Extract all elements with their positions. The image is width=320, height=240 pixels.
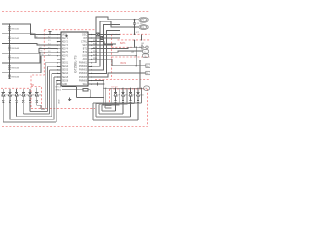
- wire PWM04 to label LB2: [92, 73, 146, 77]
- svg-text:SEG3: SEG3: [62, 70, 69, 72]
- row wire 1: [2, 24, 57, 35]
- LED D3: [15, 89, 22, 117]
- inline component Y2: [100, 37, 103, 40]
- row wire 5: [2, 52, 57, 63]
- svg-text:NTC1: NTC1: [56, 87, 62, 89]
- wire pin ADJ to label LB1: [92, 59, 146, 65]
- IC right pin name texts: [79, 34, 88, 86]
- svg-text:SEG5: SEG5: [62, 77, 69, 79]
- svg-text:GND: GND: [62, 84, 67, 86]
- net flag FL2: [139, 25, 148, 30]
- svg-text:SEG2: SEG2: [62, 66, 69, 68]
- junction dot C1 stub at zone line: [134, 33, 136, 35]
- svg-text:SW1 A1: SW1 A1: [11, 27, 20, 30]
- svg-text:INT: INT: [83, 38, 87, 40]
- svg-text:SNS: SNS: [82, 56, 87, 58]
- net label LB2: [146, 71, 150, 75]
- svg-text:R3: R3: [37, 44, 39, 46]
- left rail vertical wire: [9, 24, 11, 79]
- svg-text:BT1: BT1: [83, 49, 88, 51]
- junction dots on battery wire: [134, 47, 141, 48]
- right nest bottoms: [93, 108, 138, 120]
- svg-text:R2: R2: [35, 36, 37, 38]
- switch SW1: [8, 27, 20, 31]
- row wire 3: [2, 44, 57, 46]
- crystal X1: [92, 83, 104, 86]
- left zone red dashed line y88.3: [1, 87, 30, 89]
- mid zone red dashed line y108.4: [31, 107, 95, 109]
- LED D9: [129, 88, 136, 117]
- IC U1 body: [61, 32, 88, 86]
- net label LB1: [146, 64, 150, 68]
- svg-text:SEL: SEL: [83, 84, 88, 86]
- battery B1 symbol: [142, 43, 149, 50]
- svg-text:R4: R4: [39, 47, 41, 49]
- right LED top wire to flag 3: [103, 88, 143, 89]
- svg-text:BAT2: BAT2: [121, 62, 127, 65]
- GND stub wires: [56, 87, 104, 98]
- LED D1: [2, 89, 9, 122]
- svg-text:KEY1: KEY1: [62, 38, 69, 40]
- switch SW4: [8, 56, 20, 60]
- row wire 2: [2, 34, 57, 38]
- wire pin INT with series comp: [92, 37, 120, 39]
- LED D6 red dashed box: [31, 87, 42, 109]
- left nest bus bottoms: [3, 109, 56, 122]
- LED D7: [114, 88, 121, 111]
- IC left outside pin numbers: [48, 37, 51, 57]
- net flag FL1: [139, 17, 148, 22]
- right nest top runs to risers: [93, 103, 142, 106]
- svg-text:VDD: VDD: [62, 34, 67, 36]
- svg-text:KEY2: KEY2: [62, 41, 69, 43]
- LED D5: [28, 89, 35, 112]
- charge stub vertical: [134, 40, 135, 48]
- LED D4: [22, 89, 29, 114]
- battery1 red dashed box: [112, 34, 150, 79]
- svg-text:KEY4: KEY4: [62, 49, 69, 51]
- net flag FL3: [144, 86, 150, 91]
- junction dots on left rail: [9, 23, 10, 73]
- bottom border red dashed line: [2, 126, 148, 128]
- svg-text:SET: SET: [83, 45, 88, 47]
- switch SW5: [8, 66, 20, 70]
- LED D6 (boxed): [35, 88, 42, 106]
- svg-text:SEG1: SEG1: [62, 63, 69, 65]
- svg-text:BT2: BT2: [83, 52, 88, 54]
- svg-text:KEY6: KEY6: [62, 56, 69, 58]
- connector J1 pin B: [143, 54, 149, 58]
- wire pin BT1 to battery B1: [92, 47, 142, 48]
- wire pin BT2 to connector J1: [92, 51, 143, 52]
- wire pin OSC with series comp to BAT1 plus: [92, 34, 120, 36]
- power zone red dashed line y79.5: [95, 79, 149, 81]
- wire pin SNS to sense resistor: [92, 55, 136, 57]
- row step tiny labels: [31, 33, 44, 56]
- IC left pin stubs: [57, 35, 61, 85]
- capacitor C1 lower stub: [135, 27, 140, 34]
- wire from pin PWM02 up to net flag 2: [92, 21, 139, 66]
- IC left pin name texts: [62, 34, 69, 86]
- vertical wire to GND rail: [139, 60, 140, 89]
- wire pin SET into battery box: [92, 44, 113, 46]
- top border red dashed line: [2, 11, 149, 13]
- svg-text:SEG6: SEG6: [62, 80, 69, 82]
- right LED group red dashed box: [110, 89, 148, 108]
- svg-text:BAT1: BAT1: [120, 42, 126, 45]
- IC right pin junction dots: [91, 34, 92, 85]
- wire PWM06 down-leg: [92, 81, 104, 106]
- wire pin CTRL into battery box: [92, 42, 116, 44]
- svg-text:KEY3: KEY3: [62, 45, 69, 47]
- capacitor C1: [133, 19, 143, 28]
- svg-text:PWM01: PWM01: [79, 63, 88, 65]
- svg-text:SW5 A5: SW5 A5: [11, 66, 20, 69]
- wire from pin PWM01 up to net flag 1: [92, 17, 139, 63]
- IC right outside net labels: [93, 40, 97, 60]
- svg-text:SEG4: SEG4: [62, 73, 69, 75]
- switch SW2: [8, 36, 20, 40]
- svg-text:ADJ: ADJ: [83, 58, 87, 61]
- row wire 6: [2, 56, 57, 73]
- svg-text:R5: R5: [40, 51, 42, 53]
- svg-text:D7:10: D7:10: [112, 87, 119, 89]
- svg-text:SW2 A2: SW2 A2: [11, 37, 20, 40]
- connector J1 pin A: [143, 50, 149, 54]
- battery2 red dashed box line: [112, 56, 150, 58]
- right nest risers to top wire: [111, 88, 141, 105]
- svg-text:SW4 A4: SW4 A4: [11, 57, 20, 60]
- svg-text:R1: R1: [31, 33, 33, 35]
- svg-text:KEY5: KEY5: [62, 52, 69, 54]
- battery1 inner red dashed line: [118, 39, 150, 41]
- LED D8: [121, 88, 128, 114]
- inline component Y1: [96, 33, 99, 36]
- svg-text:B-: B-: [147, 73, 149, 75]
- LED D6 exit wire: [37, 105, 41, 109]
- LED D10: [136, 88, 144, 120]
- right border red dashed segment: [147, 89, 149, 127]
- svg-text:GND: GND: [59, 99, 61, 104]
- right nest left legs: [93, 103, 105, 120]
- svg-text:PWM04: PWM04: [79, 73, 88, 75]
- svg-text:PWM02: PWM02: [79, 66, 88, 68]
- LED D2: [8, 89, 15, 120]
- IC right pin stubs: [88, 35, 92, 85]
- wire from pin PWM03 up loop: [92, 25, 120, 70]
- down-leg B from GND wire: [105, 88, 107, 105]
- row wire 4: [2, 49, 57, 54]
- pin 1 net flag stub: [49, 32, 52, 36]
- svg-text:PWM06: PWM06: [79, 80, 88, 82]
- sense resistor R7 vertical: [132, 47, 137, 67]
- left fan-out legs from IC left pins to bus: [45, 63, 57, 122]
- switch SW3: [8, 46, 20, 50]
- IC pin1 mark: [65, 35, 67, 37]
- svg-text:GND2: GND2: [56, 90, 62, 92]
- svg-text:GT29BL-TS: GT29BL-TS: [74, 55, 78, 73]
- svg-text:R6: R6: [41, 54, 43, 56]
- svg-text:NC: NC: [62, 59, 66, 61]
- svg-text:PWM03: PWM03: [79, 70, 88, 72]
- IC left pin junction dots: [57, 34, 58, 85]
- wire from pin PWM04 up loop: [92, 31, 120, 74]
- switch SW6: [8, 75, 20, 79]
- svg-text:CTRL: CTRL: [81, 41, 88, 43]
- svg-text:SW3 A3: SW3 A3: [11, 47, 20, 50]
- B1 plus stub: [141, 34, 142, 40]
- svg-text:OSC: OSC: [82, 34, 87, 36]
- svg-text:SW6 A6: SW6 A6: [11, 76, 20, 79]
- svg-text:C1 1u: C1 1u: [137, 23, 143, 25]
- IC zone red dashed box: [31, 30, 95, 87]
- GND arrow symbol: [68, 97, 70, 101]
- svg-text:PWM05: PWM05: [79, 77, 88, 79]
